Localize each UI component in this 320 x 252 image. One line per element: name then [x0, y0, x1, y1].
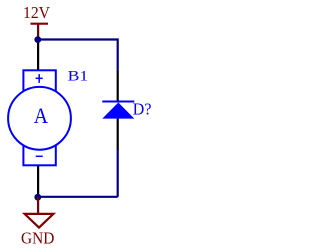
svg-text:D?: D?	[133, 100, 152, 119]
svg-text:B1: B1	[68, 68, 89, 84]
svg-text:12V: 12V	[23, 3, 51, 22]
svg-text:A: A	[34, 103, 48, 128]
svg-text:GND: GND	[21, 229, 54, 248]
